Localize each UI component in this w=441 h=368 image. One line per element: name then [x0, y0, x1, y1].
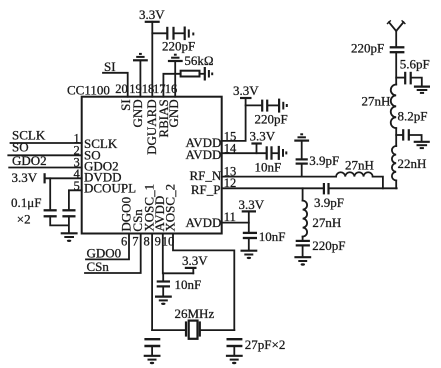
svg-text:AVDD: AVDD — [186, 215, 222, 230]
ground above 3.9pF shunt (up) — [294, 134, 309, 140]
capacitor 27pF (left) — [144, 339, 160, 346]
pin numbers bottom — [121, 234, 174, 248]
svg-text:9: 9 — [155, 234, 161, 248]
pin names left (inside) — [84, 136, 136, 195]
svg-text:XOSC_2: XOSC_2 — [162, 184, 177, 232]
wire 220pF branch pin15 — [246, 104, 261, 106]
svg-text:27nH: 27nH — [345, 157, 374, 172]
pin names bottom (rotated) — [118, 184, 177, 232]
pin names top (rotated) — [118, 99, 181, 155]
wire caps to ground — [50, 216, 69, 232]
IC U1 CC1100 body — [67, 83, 222, 234]
power 3.3V at pin 4 — [12, 170, 82, 185]
svg-text:8.2pF: 8.2pF — [398, 109, 428, 124]
ground (below pin9 10nF) — [155, 297, 172, 305]
pin numbers top — [115, 82, 177, 96]
svg-text:GDO2: GDO2 — [12, 153, 47, 168]
ground (below shunt 220pF) — [294, 257, 311, 265]
ground (below pin11 10nF) — [241, 251, 258, 259]
capacitor 10nF (pin 9) — [157, 273, 170, 295]
crystal Y1 26MHz — [186, 321, 200, 339]
svg-text:RF_P: RF_P — [191, 182, 221, 197]
wire pin 5 DCOUPL — [69, 190, 82, 209]
pin numbers left — [74, 132, 81, 193]
svg-text:8: 8 — [143, 234, 149, 248]
capacitor 5.6pF — [405, 72, 411, 85]
wire SCLK pin 1 — [11, 142, 82, 144]
wire pin 8 XOSC_1 — [151, 234, 153, 331]
svg-text:26MHz: 26MHz — [175, 306, 215, 321]
svg-text:3.9pF: 3.9pF — [309, 153, 339, 168]
ground sideways (after top 220pF) — [185, 27, 194, 41]
capacitor 10nF (pin 14) — [267, 146, 272, 159]
svg-text:CC1100: CC1100 — [67, 83, 110, 98]
power 3.3V at pin 15 — [222, 83, 260, 141]
wire GDO2 pin 3 — [9, 167, 82, 169]
wire 8.2pF branch — [396, 134, 402, 136]
svg-text:27pF×2: 27pF×2 — [245, 337, 286, 352]
wire 22nH to RF_P — [395, 180, 397, 188]
wire cap1 branch — [49, 178, 51, 209]
inductor 27nH shunt (vertical) — [303, 201, 308, 237]
svg-text:7: 7 — [132, 234, 138, 248]
svg-text:0.1μF: 0.1μF — [11, 195, 41, 210]
svg-text:27nH: 27nH — [362, 94, 391, 109]
power 3.3V at pin 11 — [222, 197, 265, 232]
svg-text:27nH: 27nH — [312, 215, 341, 230]
capacitor C2 0.1uF — [62, 210, 75, 216]
ground (below right 27pF) — [226, 356, 243, 364]
capacitor 27pF (right) — [227, 339, 243, 346]
wire pin 17 to resistor — [163, 74, 180, 97]
wire 220pF branch — [152, 32, 166, 34]
svg-text:22nH: 22nH — [398, 156, 427, 171]
capacitor 220pF (pin 15) — [262, 100, 267, 112]
wire SO pin 2 — [8, 154, 81, 156]
wire pin 19 stub — [139, 61, 141, 97]
svg-text:CSn: CSn — [87, 259, 110, 274]
wire RF_P after cap — [330, 187, 397, 189]
capacitor 220pF (antenna) — [390, 47, 405, 52]
svg-text:220pF: 220pF — [255, 112, 288, 127]
wire GDO0 pin 6 — [86, 234, 129, 260]
svg-text:3.3V: 3.3V — [12, 170, 38, 185]
svg-text:3.3V: 3.3V — [250, 128, 276, 143]
capacitor 220pF (top) — [167, 27, 173, 40]
inductor 27nH (antenna) — [391, 85, 396, 129]
ground (below 0.1uF caps) — [61, 233, 78, 242]
svg-text:220pF: 220pF — [162, 38, 195, 53]
ground sideways (after R1) — [205, 67, 212, 81]
svg-text:20: 20 — [115, 82, 128, 96]
wire trunk mid — [395, 128, 397, 146]
svg-text:3.3V: 3.3V — [233, 83, 259, 98]
svg-text:10nF: 10nF — [259, 229, 286, 244]
capacitor 8.2pF — [403, 129, 409, 140]
pin names right (inside) — [186, 135, 222, 230]
power 3.3V at pin 18 — [139, 7, 165, 97]
capacitor 220pF (shunt bottom) — [296, 237, 310, 257]
ground (below left 27pF) — [144, 356, 161, 364]
svg-text:220pF: 220pF — [312, 238, 345, 253]
ground (below 8.2pF) — [414, 142, 430, 148]
capacitor 3.9pF series on RF_P — [324, 183, 329, 194]
svg-text:RF_N: RF_N — [190, 168, 222, 183]
svg-text:56kΩ: 56kΩ — [184, 53, 213, 68]
antenna — [388, 21, 405, 47]
ground above pin 16 (up) — [168, 55, 183, 61]
svg-text:AVDD: AVDD — [186, 147, 222, 162]
svg-text:SI: SI — [104, 59, 116, 74]
svg-text:6: 6 — [121, 234, 127, 248]
svg-text:5.6pF: 5.6pF — [400, 56, 430, 71]
capacitor C1 0.1uF — [44, 210, 57, 216]
ground sideways (pin15 220pF) — [279, 99, 287, 113]
svg-text:10nF: 10nF — [255, 160, 282, 175]
pin numbers right — [224, 129, 237, 224]
wire RF_N pin 13 — [222, 176, 336, 178]
svg-text:10nF: 10nF — [175, 277, 202, 292]
svg-text:×2: ×2 — [17, 211, 31, 226]
svg-text:3.3V: 3.3V — [239, 197, 265, 212]
svg-text:GND: GND — [130, 99, 145, 127]
inductor 22nH — [392, 146, 396, 180]
capacitor 10nF (pin 11) — [243, 233, 257, 238]
wire CSn pin 7 — [85, 234, 141, 274]
svg-text:GND: GND — [166, 99, 181, 127]
wire shunt branch from RF_P — [302, 188, 304, 200]
resistor R1 56k — [181, 71, 200, 77]
svg-text:3.3V: 3.3V — [182, 253, 208, 268]
svg-text:3.3V: 3.3V — [139, 7, 165, 22]
ground sideways (pin14 10nF) — [279, 146, 287, 160]
wire 5.6pF branch — [396, 77, 404, 79]
wire pin 14 — [222, 152, 266, 154]
wire 27nH to RF_P junction — [373, 177, 383, 189]
svg-text:GDO0: GDO0 — [87, 245, 122, 260]
svg-text:3.9pF: 3.9pF — [314, 195, 344, 210]
power 3.3V at pin 9 — [182, 253, 208, 273]
ground (below 5.6pF) — [414, 87, 430, 93]
wire RF_P pin 12 — [222, 187, 323, 189]
wire pin 9 AVDD — [163, 234, 194, 274]
wire antenna trunk upper — [395, 52, 397, 84]
wire pin 16 stub — [174, 62, 176, 97]
wire pin 10 XOSC_2 — [173, 234, 234, 331]
svg-text:DCOUPL: DCOUPL — [84, 181, 136, 196]
wire SI to pin 20 — [103, 73, 128, 97]
capacitor 3.9pF shunt on RF_N — [296, 142, 308, 177]
svg-text:220pF: 220pF — [351, 40, 384, 55]
power 3.3V at pin 14 — [250, 128, 276, 153]
inductor 27nH on RF_N — [336, 172, 373, 176]
wire crystal row — [152, 329, 234, 331]
ground above pin 19 (up) — [133, 54, 148, 60]
